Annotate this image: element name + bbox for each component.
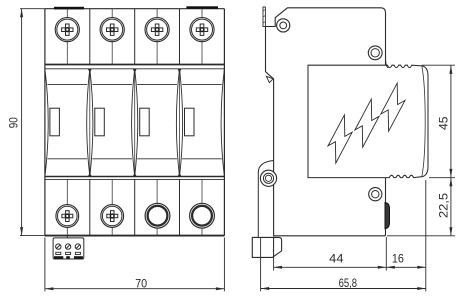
svg-text:65,8: 65,8 (339, 276, 358, 290)
svg-text:16: 16 (392, 251, 404, 265)
svg-text:70: 70 (135, 279, 147, 291)
svg-text:44: 44 (329, 251, 344, 265)
svg-text:45: 45 (436, 116, 450, 130)
svg-text:90: 90 (6, 117, 20, 128)
svg-text:22,5: 22,5 (437, 193, 451, 218)
